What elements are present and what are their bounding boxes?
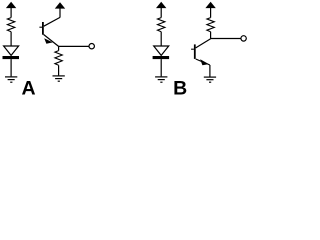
- ground (A left branch): [5, 77, 17, 82]
- wire D1 to ground: [10, 59, 12, 76]
- output wire (A): [59, 45, 90, 47]
- supply arrow (V+) at B collector resistor: [205, 2, 215, 18]
- wire emitter to ground (B): [209, 65, 211, 77]
- transistor Q1 (A, NPN emitter follower): [39, 17, 60, 46]
- output terminal circle (A): [89, 44, 94, 49]
- base bar: [194, 44, 196, 59]
- output wire (B): [211, 38, 241, 40]
- resistor R3 (B left branch): [158, 18, 165, 32]
- base bar: [42, 22, 44, 35]
- base stub: [39, 26, 42, 28]
- wire junction to emitter resistor: [58, 46, 60, 50]
- resistor R1 (A left branch): [7, 18, 14, 32]
- emitter diagonal with arrow: [196, 59, 210, 65]
- wire R1 to D1: [10, 32, 12, 46]
- supply arrow (V+) circuit A left branch: [6, 2, 16, 18]
- ground (B emitter): [204, 77, 216, 82]
- wire R4 to collector node: [210, 32, 212, 39]
- supply arrow (V+) at Q1 collector: [55, 2, 65, 17]
- wire R3 to D2: [160, 32, 162, 46]
- supply arrow (V+) circuit B left branch: [156, 2, 166, 18]
- resistor R4 (B collector): [207, 18, 214, 32]
- resistor R2 (A emitter): [55, 51, 62, 66]
- svg-text:A: A: [22, 77, 36, 99]
- output terminal circle (B): [241, 36, 246, 41]
- diode D1 (A): [3, 46, 20, 59]
- transistor Q2 (B, NPN common emitter): [191, 39, 211, 65]
- wire R2 to ground: [58, 65, 60, 75]
- ground (B left branch): [155, 77, 167, 82]
- ground (A emitter): [53, 76, 65, 81]
- wire D2 to ground: [160, 59, 162, 76]
- base stub: [191, 48, 194, 50]
- svg-text:B: B: [173, 77, 187, 99]
- diode D2 (B): [153, 46, 170, 59]
- emitter diagonal with arrow: [44, 35, 59, 47]
- collector diagonal: [44, 17, 60, 26]
- collector diagonal: [196, 39, 211, 48]
